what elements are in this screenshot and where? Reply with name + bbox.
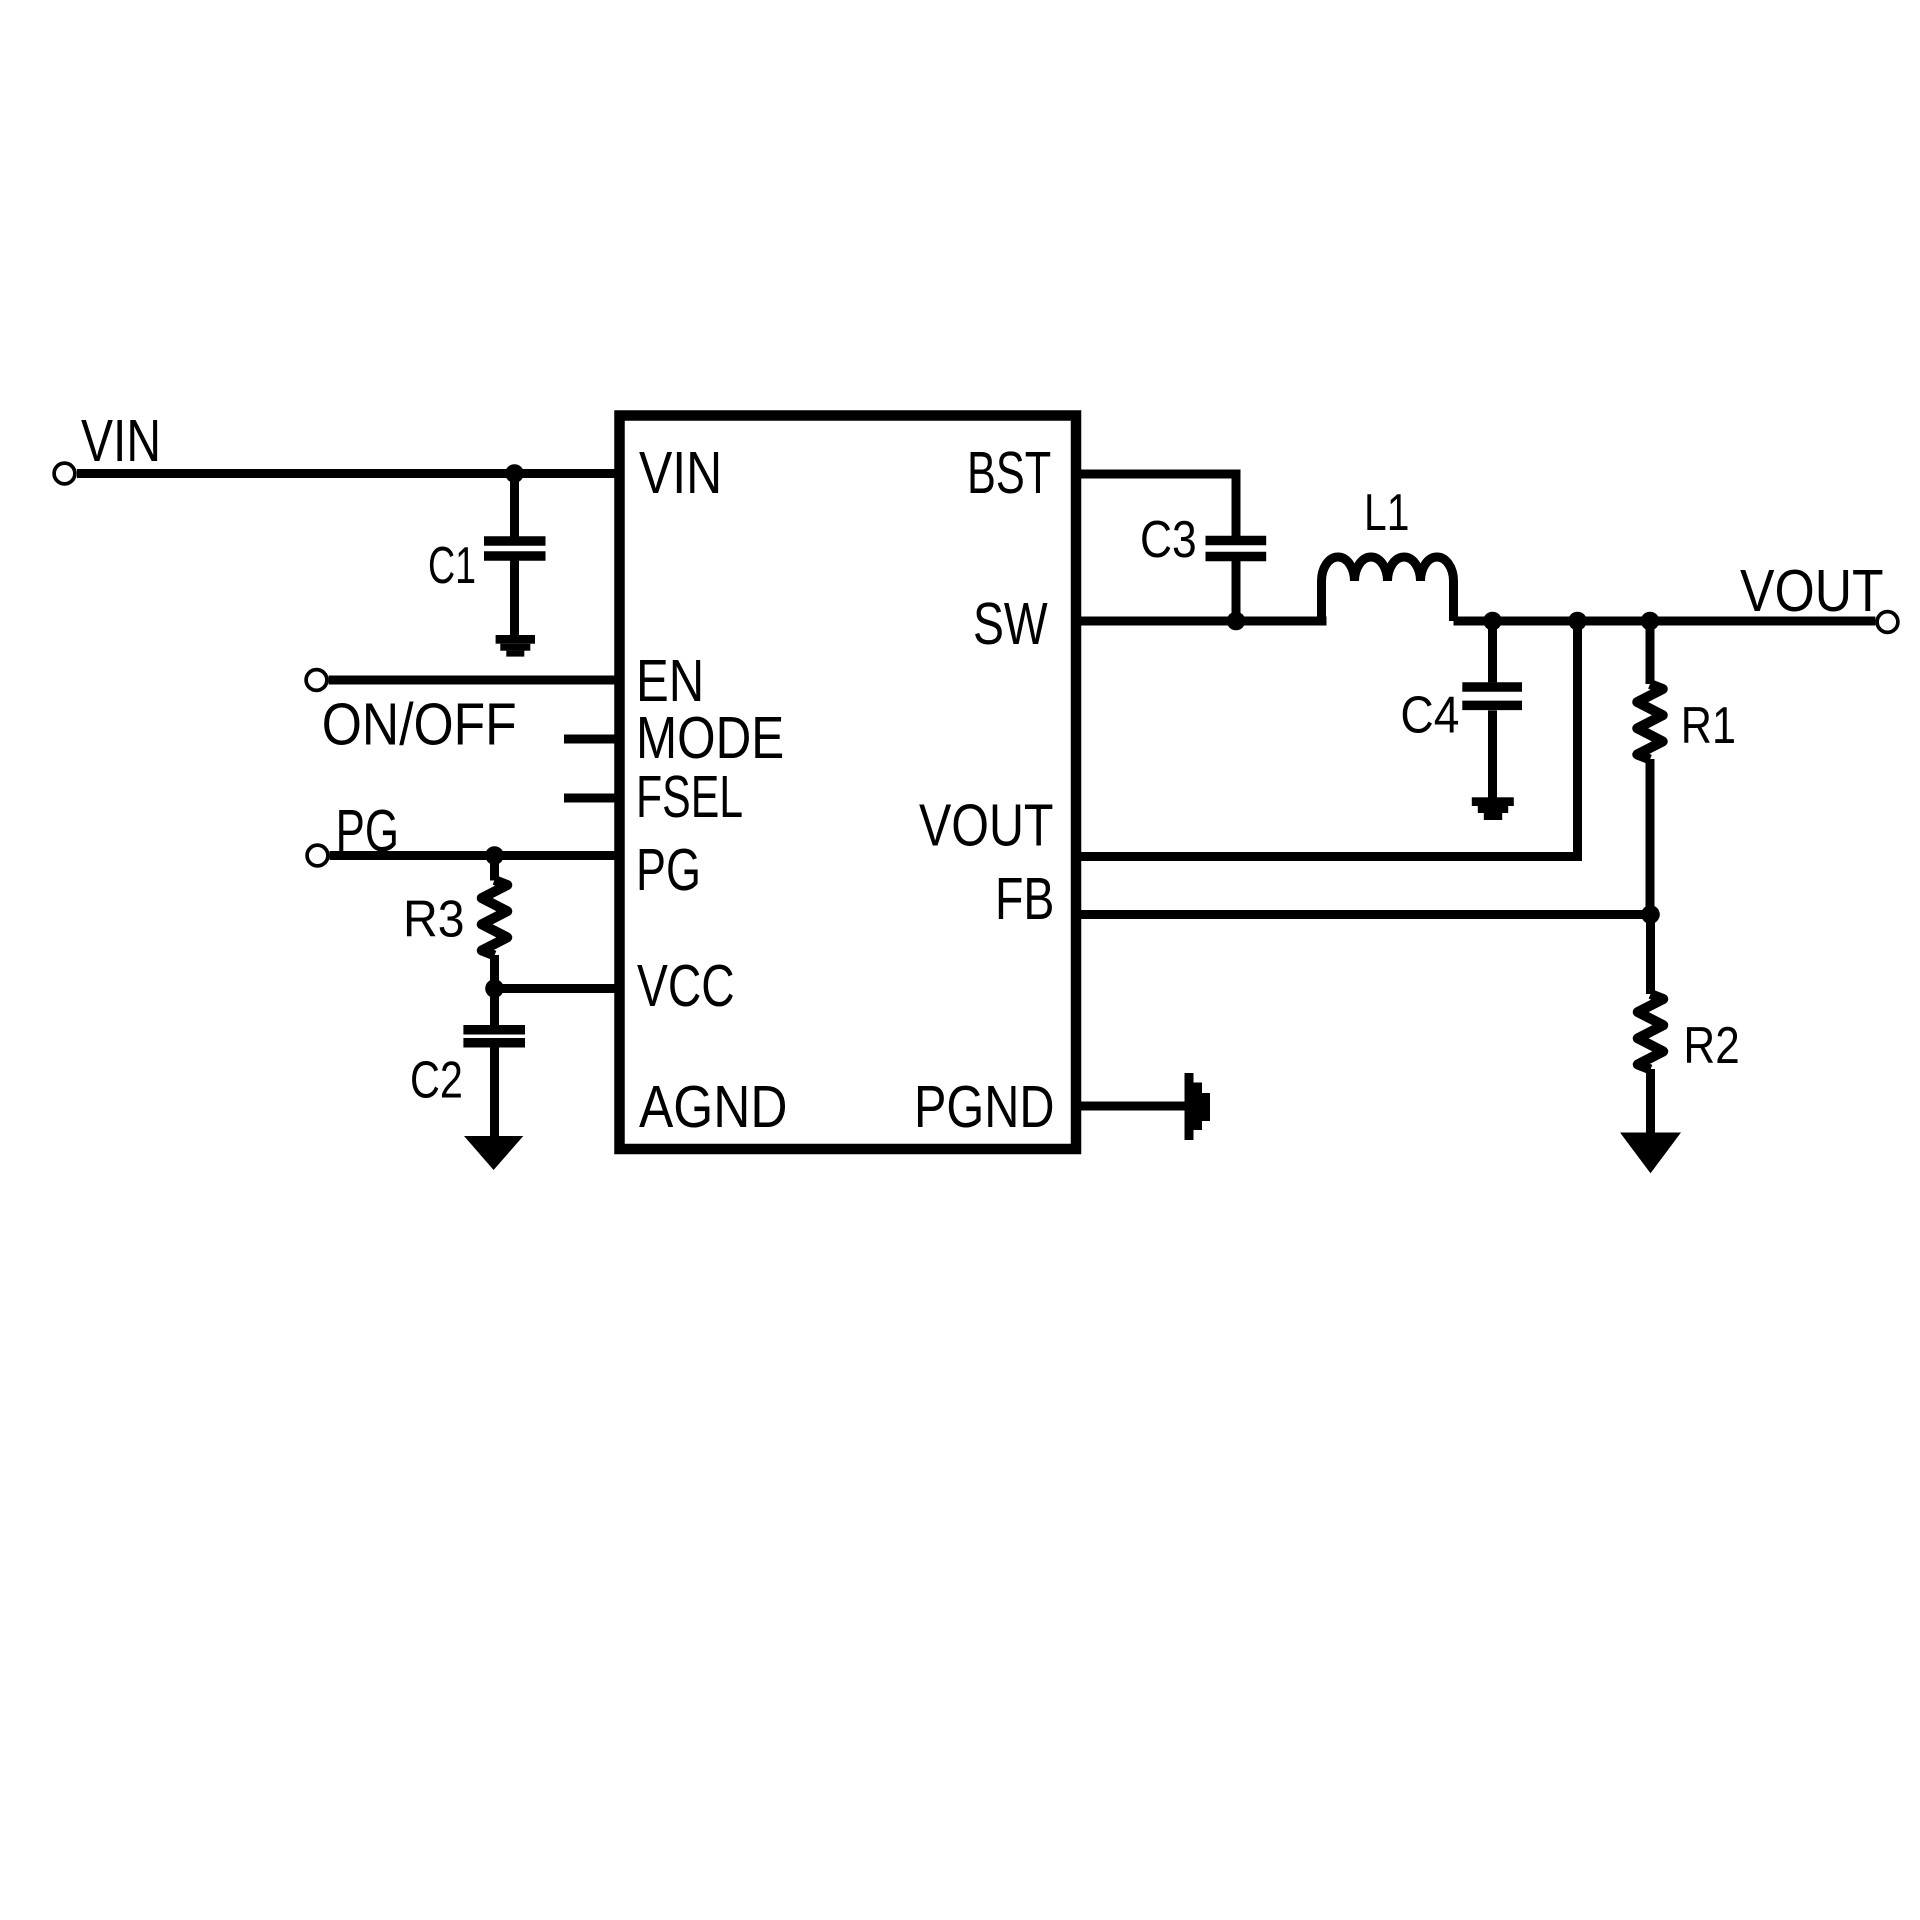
svg-text:C1: C1	[428, 536, 476, 594]
svg-text:C4: C4	[1400, 686, 1459, 744]
svg-text:ON/OFF: ON/OFF	[322, 691, 517, 758]
svg-text:SW: SW	[973, 590, 1048, 657]
svg-text:R3: R3	[403, 890, 465, 948]
svg-text:PG: PG	[636, 836, 701, 903]
svg-text:C3: C3	[1140, 510, 1197, 568]
svg-text:R1: R1	[1681, 696, 1736, 754]
svg-text:VCC: VCC	[637, 952, 735, 1019]
svg-text:VIN: VIN	[81, 407, 161, 474]
svg-text:VOUT: VOUT	[919, 792, 1054, 859]
svg-text:BST: BST	[967, 439, 1051, 506]
svg-text:R2: R2	[1683, 1016, 1739, 1074]
svg-text:AGND: AGND	[639, 1073, 788, 1140]
svg-text:FB: FB	[995, 865, 1054, 932]
svg-text:C2: C2	[410, 1051, 463, 1109]
svg-text:PG: PG	[336, 797, 399, 864]
svg-text:FSEL: FSEL	[636, 763, 743, 830]
svg-text:MODE: MODE	[636, 704, 784, 771]
svg-text:L1: L1	[1364, 483, 1409, 541]
svg-text:VOUT: VOUT	[1740, 557, 1884, 624]
svg-text:VIN: VIN	[639, 439, 722, 506]
svg-text:PGND: PGND	[914, 1073, 1055, 1140]
